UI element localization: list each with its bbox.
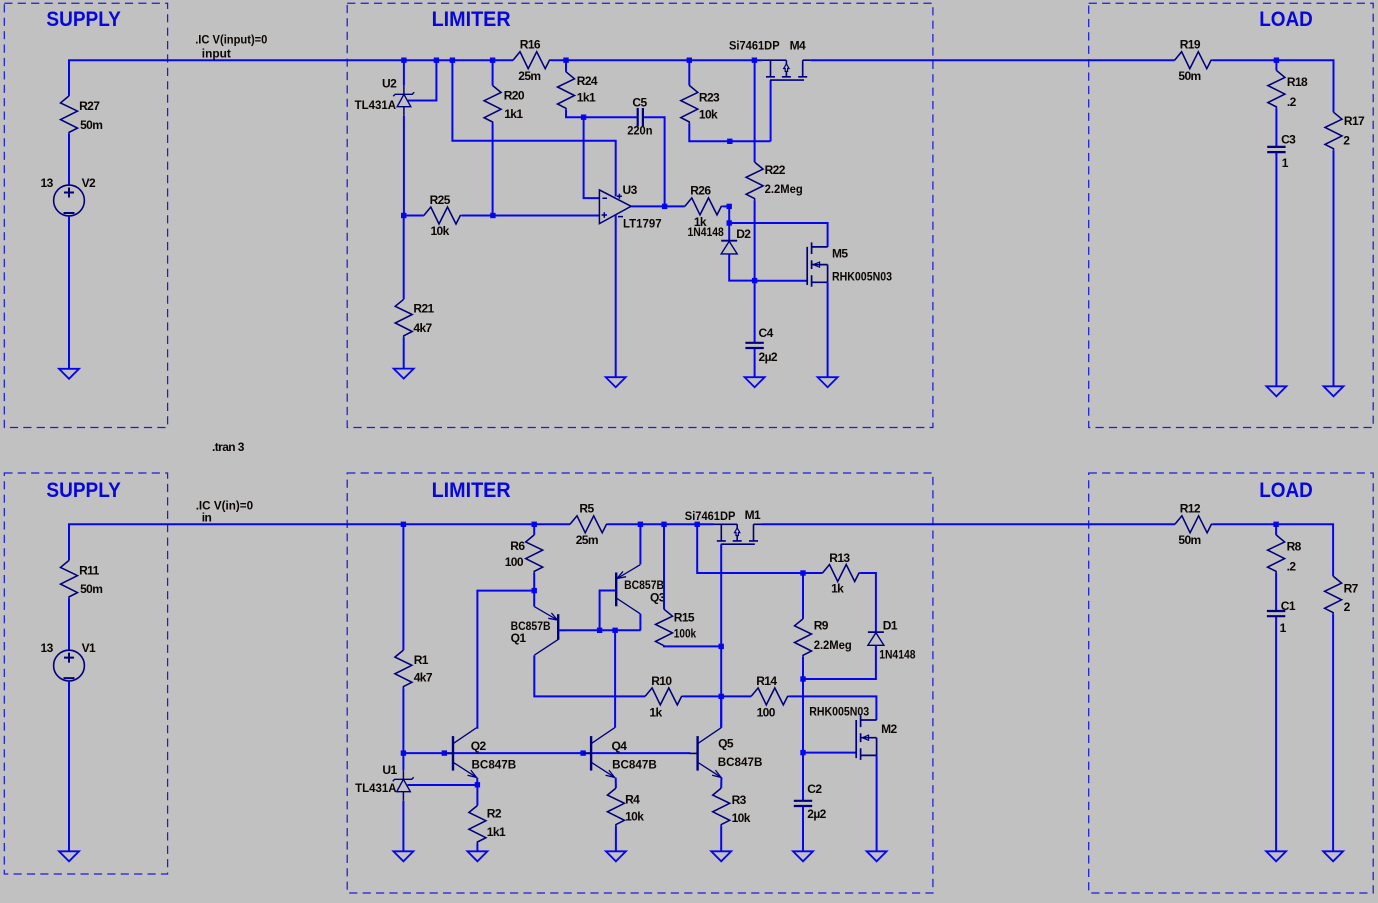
node R26-D2 junction	[727, 204, 732, 209]
wire M2 gate feed	[803, 752, 856, 754]
svg-text:R22: R22	[765, 163, 786, 177]
wire R11 to V1	[68, 598, 70, 650]
node R13 feed on rail	[695, 522, 700, 527]
wire M5 drain feed	[729, 223, 827, 247]
mosfet M2 RHK005N03	[856, 716, 876, 760]
wire Q3 emitter riser	[639, 524, 641, 564]
svg-text:M2: M2	[881, 722, 897, 736]
svg-text:R3: R3	[732, 793, 747, 807]
svg-text:1k1: 1k1	[504, 107, 523, 121]
resistor R3	[713, 788, 730, 826]
svg-text:M1: M1	[745, 508, 761, 522]
svg-text:R13: R13	[829, 551, 850, 565]
svg-text:Si7461DP: Si7461DP	[685, 509, 736, 523]
svg-text:M5: M5	[832, 247, 848, 261]
svg-text:BC847B: BC847B	[472, 758, 517, 772]
wire top rail from supply corner	[69, 60, 513, 96]
svg-text:LOAD: LOAD	[1259, 8, 1313, 31]
resistor R4	[607, 788, 624, 826]
resistor R8	[1268, 535, 1285, 573]
svg-text:R15: R15	[674, 611, 695, 625]
svg-text:R11: R11	[79, 563, 99, 577]
wire R6 bottom	[533, 573, 535, 591]
ground R2	[467, 851, 487, 861]
wire R9 top lead	[802, 573, 804, 619]
svg-text:2: 2	[1343, 133, 1350, 147]
svg-text:100: 100	[757, 705, 776, 719]
ground op-amp	[606, 377, 626, 387]
op-amp U3 LT1797	[599, 190, 631, 224]
resistor R22	[746, 162, 763, 200]
svg-text:D1: D1	[883, 619, 898, 633]
svg-text:1N4148: 1N4148	[688, 225, 725, 239]
svg-text:R23: R23	[699, 91, 720, 105]
node R25 left junction	[401, 213, 406, 218]
wire C5 left	[584, 116, 637, 118]
wire R13 right to D1	[861, 573, 876, 632]
svg-text:1k1: 1k1	[487, 825, 506, 839]
svg-text:R2: R2	[487, 807, 502, 821]
svg-text:R26: R26	[690, 183, 711, 197]
wire V2 to ground	[68, 216, 70, 369]
resistor R15	[656, 609, 673, 647]
transistor Q2 BC847B	[452, 736, 454, 771]
wire M4 gate riser	[770, 80, 772, 141]
ground U1	[393, 851, 413, 861]
svg-text:BC847B: BC847B	[612, 758, 657, 772]
svg-text:13: 13	[41, 641, 54, 655]
node C4 junction	[752, 278, 757, 283]
box LOAD bottom	[1089, 473, 1374, 893]
node R15 top on rail	[661, 522, 666, 527]
svg-text:SUPPLY: SUPPLY	[46, 8, 120, 31]
svg-text:R14: R14	[756, 674, 777, 688]
svg-text:50m: 50m	[1178, 69, 1200, 83]
ground R17	[1324, 386, 1344, 396]
svg-text:25m: 25m	[576, 533, 598, 547]
wire rail R16 to M4 source	[551, 59, 762, 61]
svg-text:LIMITER: LIMITER	[432, 479, 511, 502]
mosfet M5 RHK005N03	[807, 242, 827, 286]
svg-text:1k: 1k	[649, 705, 662, 719]
capacitor C2	[794, 801, 812, 806]
wire bottom rail from supply corner	[69, 524, 570, 560]
svg-text:BC847B: BC847B	[718, 755, 763, 769]
ground R7	[1323, 851, 1343, 861]
wire R27 to V2	[68, 134, 70, 185]
node R9-D1 junction	[800, 676, 805, 681]
svg-text:R8: R8	[1287, 540, 1302, 554]
wire Q5 collector riser	[720, 696, 722, 727]
node Q4 base pin	[580, 750, 585, 755]
resistor R7	[1325, 576, 1342, 614]
wire rail R5 to M1	[608, 523, 713, 525]
node +in junction	[490, 213, 495, 218]
ground C1	[1266, 851, 1286, 861]
wire R1 top lead	[402, 524, 404, 650]
ground M5	[818, 377, 838, 387]
wire R15 top lead	[663, 524, 665, 609]
svg-text:R25: R25	[430, 193, 451, 207]
wire R24 bottom bend	[566, 110, 584, 117]
node R1 column on rail	[401, 522, 406, 527]
resistor R2	[469, 806, 486, 844]
resistor R27	[61, 96, 78, 134]
resistor R14	[751, 688, 789, 705]
svg-text:2µ2: 2µ2	[759, 350, 778, 364]
resistor R11	[61, 560, 78, 598]
ground V2	[59, 369, 79, 379]
diode D1	[868, 631, 884, 633]
svg-text:C3: C3	[1281, 133, 1296, 147]
wire R26 right	[723, 205, 729, 207]
wire C2 top lead	[802, 753, 804, 801]
wire R4 to ground	[615, 826, 617, 851]
voltage source V1	[54, 650, 85, 681]
wire R6 top lead	[533, 524, 535, 535]
wire M5 gate feed	[755, 280, 808, 282]
svg-text:R24: R24	[577, 74, 598, 88]
node U2 cathode on rail	[401, 58, 406, 63]
wire Q4 emitter to R4	[615, 778, 617, 789]
svg-text:R16: R16	[520, 37, 541, 51]
svg-text:C5: C5	[632, 96, 647, 110]
svg-text:220n: 220n	[627, 124, 652, 138]
svg-text:R9: R9	[814, 619, 829, 633]
wire base bus	[403, 752, 690, 754]
wire R18 to C3	[1275, 108, 1277, 146]
node C2 junction	[800, 750, 805, 755]
svg-text:10k: 10k	[732, 811, 751, 825]
capacitor C4	[745, 343, 763, 348]
wire Q2 collector riser	[477, 591, 535, 728]
svg-text:R6: R6	[510, 539, 525, 553]
node Q3 emitter on rail	[638, 522, 643, 527]
mosfet M4 Si7461DP	[762, 60, 810, 80]
node R15 gate junction	[719, 644, 724, 649]
svg-text:4k7: 4k7	[414, 671, 433, 685]
node R18 top	[1274, 58, 1279, 63]
wire D2 top	[728, 206, 730, 240]
resistor R23	[681, 85, 698, 123]
svg-text:Q1: Q1	[511, 631, 527, 645]
wire R15 bottom bend	[664, 645, 721, 648]
wire R21 top	[403, 216, 405, 300]
svg-text:SUPPLY: SUPPLY	[46, 479, 120, 502]
svg-text:1: 1	[1282, 156, 1289, 170]
svg-text:C4: C4	[759, 326, 774, 340]
resistor R10	[645, 688, 683, 705]
wire C5 right to output	[644, 117, 665, 206]
svg-text:1N4148: 1N4148	[879, 648, 916, 662]
svg-text:R7: R7	[1344, 581, 1359, 595]
node gate wire junction	[727, 139, 732, 144]
box SUPPLY top	[4, 3, 167, 427]
resistor R6	[526, 535, 543, 573]
node R9 top junction	[800, 570, 805, 575]
wire C3 to ground	[1275, 153, 1277, 387]
wire D1 anode	[803, 645, 876, 679]
box LOAD top	[1089, 3, 1374, 427]
diode D2	[721, 240, 737, 242]
node R24 top on rail	[563, 58, 568, 63]
wire R25 left lead	[404, 215, 424, 217]
wire R18 top lead	[1275, 60, 1277, 70]
node Q2 base pin	[442, 750, 447, 755]
svg-text:50m: 50m	[1178, 533, 1200, 547]
svg-text:R12: R12	[1180, 502, 1201, 516]
wire R17 to ground	[1333, 150, 1335, 386]
svg-text:V1: V1	[82, 641, 96, 655]
resistor R9	[795, 619, 812, 657]
svg-text:.2: .2	[1287, 559, 1297, 573]
ground M2	[867, 851, 887, 861]
svg-text:R17: R17	[1344, 114, 1365, 128]
resistor R13	[823, 565, 861, 582]
capacitor C1	[1267, 611, 1285, 616]
svg-text:R5: R5	[579, 502, 594, 516]
transistor Q1 BC857B	[557, 614, 559, 640]
wire R1 to U1	[402, 688, 404, 770]
svg-text:in: in	[202, 511, 212, 525]
svg-text:Q5: Q5	[718, 737, 734, 751]
resistor R1	[395, 650, 412, 688]
svg-text:C2: C2	[807, 782, 822, 796]
svg-text:2: 2	[1344, 600, 1351, 614]
wire R23 top lead	[688, 60, 690, 85]
wire minus riser	[584, 117, 600, 198]
capacitor C3	[1267, 147, 1285, 152]
resistor R12	[1175, 516, 1213, 533]
wire C4 to ground	[754, 349, 756, 378]
svg-text:U1: U1	[382, 763, 397, 777]
svg-text:25m: 25m	[518, 69, 540, 83]
wire U2 ref to rail riser	[408, 60, 437, 100]
wire R23 bottom to gate node	[689, 123, 770, 141]
mosfet M1 Si7461DP	[713, 524, 761, 544]
transistor Q4 BC847B	[590, 736, 592, 771]
wire U1 anode to ground	[402, 801, 404, 852]
ground R4	[606, 851, 626, 861]
node output junction	[662, 204, 667, 209]
svg-text:2.2Meg: 2.2Meg	[814, 638, 852, 652]
svg-text:U2: U2	[382, 77, 397, 91]
voltage source V2	[54, 185, 85, 216]
wire M2 source to ground	[876, 755, 878, 851]
resistor R20	[484, 86, 501, 124]
wire Q1 collector	[534, 655, 645, 696]
svg-text:1k: 1k	[831, 582, 844, 596]
svg-text:LOAD: LOAD	[1259, 479, 1313, 502]
node base bus left	[401, 750, 406, 755]
wire R22 bottom to C4 node	[754, 200, 756, 281]
transistor Q3 BC857B	[615, 573, 617, 607]
svg-text:10k: 10k	[625, 810, 644, 824]
node D2 drain-wire junction	[727, 220, 732, 225]
resistor R26	[685, 198, 723, 215]
node R22 top on rail	[752, 58, 757, 63]
wire Q5 emitter to R3	[720, 778, 722, 789]
wire R22 top lead	[754, 60, 756, 162]
wire op-amp V- to ground	[615, 215, 617, 377]
node Q4 collector junction	[612, 628, 617, 633]
ground C2	[793, 851, 813, 861]
wire R12 to R7 corner	[1213, 524, 1333, 576]
svg-text:13: 13	[41, 176, 54, 190]
ground C3	[1266, 386, 1286, 396]
wire op-amp output	[631, 205, 685, 207]
node R6 top on rail	[532, 522, 537, 527]
node R23 top on rail	[687, 58, 692, 63]
wire R3 to ground	[720, 826, 722, 851]
wire C1 to ground	[1275, 617, 1277, 852]
wire Q4 collector riser	[614, 630, 616, 727]
svg-text:LT1797: LT1797	[623, 216, 662, 230]
wire M5 source to ground	[827, 282, 829, 377]
node R20 top on rail	[490, 58, 495, 63]
wire V1 to ground	[68, 681, 70, 851]
node op-amp V+ riser on rail	[450, 58, 455, 63]
svg-text:TL431A: TL431A	[355, 781, 397, 795]
svg-text:R4: R4	[625, 792, 640, 806]
node R2 top junction	[475, 782, 480, 787]
wire R10 to R14	[683, 695, 751, 697]
svg-text:Q4: Q4	[612, 739, 628, 753]
wire Q1 emitter riser	[533, 591, 535, 607]
wire Q3 base	[600, 591, 617, 631]
resistor R16 on rail	[513, 52, 551, 69]
wire R8 to C1	[1275, 573, 1277, 611]
svg-text:2µ2: 2µ2	[807, 807, 826, 821]
ground V1	[59, 851, 79, 861]
resistor R21	[395, 299, 412, 337]
wire R24 top lead	[565, 60, 567, 72]
resistor R17	[1325, 112, 1342, 150]
svg-text:R27: R27	[79, 99, 100, 113]
node R8 top	[1273, 522, 1278, 527]
svg-text:U3: U3	[623, 183, 638, 197]
wire R21 to ground	[403, 337, 405, 368]
capacitor C5	[638, 108, 643, 126]
node C5 left junction	[581, 115, 586, 120]
svg-text:C1: C1	[1281, 599, 1296, 613]
resistor R18	[1268, 70, 1285, 108]
svg-text:50m: 50m	[80, 582, 102, 596]
svg-text:input: input	[202, 47, 231, 61]
wire R7 to ground	[1332, 614, 1334, 851]
wire R13 feed	[697, 524, 822, 573]
node R10-R14 junction	[719, 694, 724, 699]
svg-text:M4: M4	[790, 39, 806, 53]
svg-text:50m: 50m	[80, 118, 102, 132]
wire M1 gate riser	[720, 544, 722, 728]
svg-text:R1: R1	[414, 653, 429, 667]
svg-text:R21: R21	[413, 302, 434, 316]
node Q3 base riser junction	[597, 628, 602, 633]
resistor R24	[558, 72, 575, 110]
svg-text:10k: 10k	[430, 224, 449, 238]
svg-text:1k1: 1k1	[577, 90, 596, 104]
wire Q1 base bus	[558, 629, 641, 631]
transistor Q5 BC847B	[696, 736, 698, 771]
wire U2 anode down to R25 node	[403, 116, 405, 216]
wire C4 top lead	[754, 281, 756, 343]
wire R2 to ground	[476, 844, 478, 852]
wire R20 bottom to +in node	[492, 124, 494, 216]
wire R25 to op-amp +in	[462, 215, 600, 217]
resistor R19	[1175, 52, 1213, 69]
wire Q3 collector riser	[639, 614, 641, 630]
wire U2 cathode	[403, 60, 405, 85]
node R6-Q1 junction	[532, 588, 537, 593]
wire rail M1 drain to R12	[761, 523, 1175, 525]
svg-text:.IC V(input)=0: .IC V(input)=0	[195, 32, 267, 46]
svg-text:D2: D2	[736, 227, 751, 241]
svg-text:100: 100	[505, 555, 524, 569]
wire R19 to R17 corner	[1213, 60, 1334, 112]
shunt reference U2 TL431A	[403, 85, 405, 116]
svg-text:100k: 100k	[674, 626, 697, 640]
svg-text:R10: R10	[651, 674, 672, 688]
wire rail M4 drain to R19	[811, 59, 1175, 61]
svg-text:.tran 3: .tran 3	[212, 440, 245, 454]
resistor R5 on rail	[570, 516, 608, 533]
wire D2 anode to C4 node	[729, 254, 754, 281]
svg-text:1: 1	[1280, 621, 1287, 635]
svg-text:RHK005N03: RHK005N03	[809, 705, 869, 719]
wire R20 top lead	[492, 60, 494, 85]
box LIMITER top	[347, 3, 933, 427]
ground C4	[745, 377, 765, 387]
wire R14 right to M2 drain	[789, 696, 876, 720]
svg-text:Q2: Q2	[471, 739, 487, 753]
ground R3	[711, 851, 731, 861]
svg-text:10k: 10k	[699, 108, 718, 122]
svg-text:R20: R20	[504, 89, 525, 103]
ground R21	[394, 369, 414, 379]
wire U1 ref	[407, 784, 477, 786]
box LIMITER bottom	[347, 473, 933, 893]
box SUPPLY bottom	[4, 473, 167, 874]
svg-text:V2: V2	[82, 176, 96, 190]
svg-text:RHK005N03: RHK005N03	[832, 270, 892, 284]
wire R8 top lead	[1275, 524, 1277, 535]
resistor R25	[424, 207, 462, 224]
wire R2 top lead	[476, 785, 478, 806]
svg-text:LIMITER: LIMITER	[432, 8, 511, 31]
wire Q2 emitter	[476, 778, 478, 785]
svg-text:Si7461DP: Si7461DP	[729, 39, 780, 53]
svg-text:2.2Meg: 2.2Meg	[765, 182, 803, 196]
svg-text:.2: .2	[1287, 95, 1297, 109]
wire V+ feed	[452, 60, 615, 196]
wire R9 bottom	[802, 657, 804, 753]
svg-text:R19: R19	[1180, 37, 1201, 51]
node U2 ref riser	[434, 58, 439, 63]
svg-text:R18: R18	[1287, 75, 1308, 89]
svg-text:4k7: 4k7	[413, 321, 432, 335]
wire C2 to ground	[802, 807, 804, 852]
svg-text:TL431A: TL431A	[355, 98, 397, 112]
shunt reference U1 TL431A	[402, 770, 404, 801]
